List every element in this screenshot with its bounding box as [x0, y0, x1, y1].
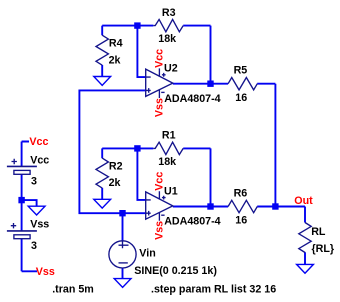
svg-text:RL: RL	[311, 226, 326, 238]
svg-text:3: 3	[31, 240, 37, 252]
svg-text:Vcc: Vcc	[154, 172, 166, 191]
svg-text:U1: U1	[164, 186, 178, 198]
svg-text:.tran 5m: .tran 5m	[52, 283, 94, 295]
svg-text:Vin: Vin	[139, 248, 155, 260]
svg-text:{RL}: {RL}	[312, 243, 335, 255]
svg-text:Vss: Vss	[154, 98, 166, 117]
svg-text:Vss: Vss	[30, 219, 49, 231]
svg-text:.step param RL list 32 16: .step param RL list 32 16	[151, 284, 276, 296]
svg-text:U2: U2	[164, 63, 178, 75]
svg-text:18k: 18k	[158, 156, 176, 168]
svg-text:16: 16	[235, 92, 247, 104]
svg-text:Vss: Vss	[36, 266, 55, 278]
svg-text:ADA4807-4: ADA4807-4	[164, 216, 220, 228]
svg-text:R3: R3	[162, 7, 176, 19]
svg-text:R1: R1	[162, 130, 176, 142]
svg-text:R4: R4	[109, 38, 123, 50]
svg-text:R6: R6	[234, 187, 248, 199]
svg-text:Vcc: Vcc	[29, 136, 48, 148]
svg-text:Vcc: Vcc	[154, 49, 166, 68]
svg-text:2k: 2k	[109, 54, 121, 66]
svg-text:Out: Out	[294, 195, 313, 207]
svg-text:18k: 18k	[158, 33, 176, 45]
svg-text:2k: 2k	[109, 177, 121, 189]
svg-text:SINE(0 0.215 1k): SINE(0 0.215 1k)	[134, 265, 217, 277]
svg-text:3: 3	[31, 175, 37, 187]
svg-text:ADA4807-4: ADA4807-4	[164, 93, 220, 105]
svg-text:Vcc: Vcc	[30, 154, 49, 166]
svg-text:R5: R5	[234, 65, 248, 77]
svg-text:16: 16	[235, 214, 247, 226]
svg-text:R2: R2	[109, 160, 123, 172]
svg-text:Vss: Vss	[154, 221, 166, 240]
